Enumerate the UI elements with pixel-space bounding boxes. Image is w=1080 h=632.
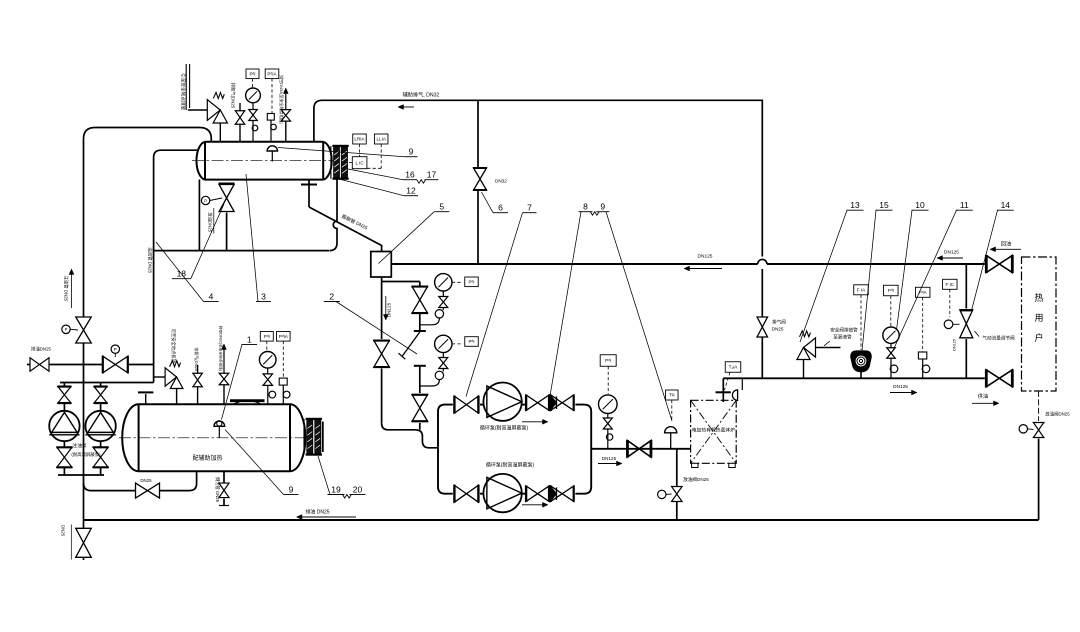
valve: bypass lower xyxy=(412,395,429,422)
label: 注油泵(耐高温屏蔽泵) xyxy=(71,442,101,458)
svg-text:20: 20 xyxy=(353,484,363,494)
svg-text:PᵈI: PᵈI xyxy=(264,334,270,339)
svg-text:排气阀: 排气阀 xyxy=(772,319,786,326)
wire: aux vent pipe (辅助排气) top run y=100.3 xyxy=(314,100,762,256)
svg-text:5: 5 xyxy=(439,202,444,212)
svg-text:放油阀DN25: 放油阀DN25 xyxy=(1045,411,1070,418)
flow meter (item 15) + box F IA xyxy=(851,285,871,379)
svg-text:PᵈI: PᵈI xyxy=(468,279,474,284)
label: DN125 + right arrow on supply manifold xyxy=(890,384,917,395)
callout 4 xyxy=(156,242,219,302)
instrument box PdIA (lower tank) + transmitter xyxy=(277,332,291,405)
svg-text:注油泵: 注油泵 xyxy=(72,442,87,449)
svg-text:用: 用 xyxy=(1034,313,1043,323)
svg-text:循环泵(耐高温屏蔽泵): 循环泵(耐高温屏蔽泵) xyxy=(486,462,535,469)
svg-text:LLIA: LLIA xyxy=(376,137,386,142)
wire: bypass branch x=419.8 (valve1/spool/valve2) xyxy=(382,282,420,430)
svg-text:8: 8 xyxy=(583,202,588,212)
svg-text:至漏液管: 至漏液管 xyxy=(833,334,852,341)
wire: vent branch with valve6 x=478 xyxy=(477,100,479,264)
svg-text:11: 11 xyxy=(960,200,969,210)
label: 溢流管 DN25 xyxy=(147,247,154,273)
svg-text:可至安全地点排放: 可至安全地点排放 xyxy=(170,329,177,364)
svg-text:PᵈIA: PᵈIA xyxy=(267,71,277,76)
centerline: expansion tank xyxy=(192,160,336,162)
svg-text:LRIA: LRIA xyxy=(354,137,365,142)
label: expansion pipe 膨胀管 DN25 xyxy=(341,213,370,232)
wire: horizontal drain collect line y=250.6 xyxy=(154,250,329,252)
wire: safety relief outlet (upper tank) to riser xyxy=(186,64,207,110)
instrument box PdI (lower tank) xyxy=(260,332,273,352)
svg-text:F IA: F IA xyxy=(857,287,866,292)
svg-text:循环泵(耐高温屏蔽泵): 循环泵(耐高温屏蔽泵) xyxy=(480,425,529,432)
svg-text:9: 9 xyxy=(409,147,414,157)
valve: nitrogen vent 排氮气 DN25 (lower) xyxy=(193,365,203,404)
wire: tank bottom nozzle drop x=199.4 xyxy=(198,180,200,251)
wire: control valve bypass vertical x=966.3 xyxy=(965,264,967,378)
svg-text:4: 4 xyxy=(209,291,214,301)
valve: pump2 bottom xyxy=(93,447,109,467)
svg-text:PᵈIA: PᵈIA xyxy=(279,334,289,339)
pressure gauge assembly on storage tank xyxy=(259,352,276,405)
wire: lower safety relief outlet to overflow pipe xyxy=(154,376,166,378)
svg-text:16: 16 xyxy=(405,170,415,180)
svg-text:排空DN32(至安全地点相连): 排空DN32(至安全地点相连) xyxy=(219,326,224,371)
callout 1 xyxy=(222,334,258,419)
label+arrow: 循环泵(耐高温屏蔽泵) top xyxy=(480,419,548,431)
valve: pump2 top xyxy=(94,387,108,404)
instrument box T1IA at heater outlet xyxy=(725,362,741,390)
filter pot (item 5) xyxy=(371,252,392,278)
wire: lower tank bottom outlet to DN25 valve line y=490.6 xyxy=(84,471,197,490)
svg-text:DN25: DN25 xyxy=(61,525,66,537)
valve: injection riser w/ P tap x=83.5 xyxy=(62,317,91,343)
callout 9 (level gauge top) xyxy=(278,147,418,157)
control valve 气动流量调节阀 (item 14) + box F IC xyxy=(943,279,1015,351)
valve: pump1 top xyxy=(57,387,71,404)
svg-text:PᵈI: PᵈI xyxy=(605,358,611,363)
wire: level-gauge drain drop x=337 with jump over expansion line xyxy=(329,178,337,251)
valve: tank drain w/ P tap (item 18) xyxy=(201,184,234,212)
vessel: oil storage tank 配辅助加热 (shell) xyxy=(122,404,305,471)
svg-text:DN125: DN125 xyxy=(698,254,713,260)
svg-text:辅助排气, DN32: 辅助排气, DN32 xyxy=(403,91,440,99)
label: 回油 + left arrow xyxy=(990,239,1021,251)
wire: bottom drain header y=520 xyxy=(84,519,1039,521)
pump: injection pump 1 (注油泵) xyxy=(49,411,79,441)
svg-text:PᵈI: PᵈI xyxy=(468,339,474,344)
svg-text:L IC: L IC xyxy=(355,160,364,165)
instrument box LRIA xyxy=(353,134,367,156)
instrument box PdI (upper tank) xyxy=(246,69,259,88)
svg-text:DN125: DN125 xyxy=(602,456,617,461)
safety valve on supply manifold (item 13) xyxy=(797,331,841,379)
wire: overflow pipe (溢流管) from tank head down x=153.5 xyxy=(154,150,198,382)
pressure gauge PdI on discharge xyxy=(599,355,618,449)
svg-text:1: 1 xyxy=(247,334,252,344)
callout 11 xyxy=(894,200,973,350)
temperature dome at heater outlet xyxy=(732,378,742,400)
callout 5 xyxy=(379,202,450,264)
svg-text:13: 13 xyxy=(850,200,860,210)
label: DN125 + left arrow on return near user xyxy=(937,250,963,261)
callout 8 + 9 xyxy=(550,202,672,422)
svg-text:DN125: DN125 xyxy=(952,339,956,351)
pressure gauge (item 10) + box PdI on manifold xyxy=(883,285,899,378)
label: 注油管 DN25 + up arrow xyxy=(63,269,74,308)
valve: blowdown 倒污管 DN25 xyxy=(219,483,229,498)
svg-text:P: P xyxy=(204,198,207,203)
centerline: storage tank xyxy=(119,437,308,439)
temperature sensor TgI at heater inlet xyxy=(665,390,678,449)
pump: circulation pump top (循环泵) xyxy=(483,383,521,421)
vessel: expansion tank (shell) xyxy=(196,142,331,180)
valve: bottom header drain x=83.5 xyxy=(61,525,92,560)
svg-text:户: 户 xyxy=(1034,332,1043,343)
valve: return isolation at heat user xyxy=(986,255,1012,273)
pressure gauge PdI #1 (bypass) xyxy=(420,274,452,325)
wire: supply manifold y=378.3 xyxy=(723,377,985,379)
callout 12 xyxy=(341,180,418,196)
svg-text:排氮气(DN25: 排氮气(DN25 xyxy=(194,347,200,371)
valve: pump1 bottom xyxy=(56,447,72,467)
svg-text:放油阀DN25: 放油阀DN25 xyxy=(683,476,709,483)
transmitter (item 11?) + box PdA on manifold xyxy=(915,287,930,378)
nozzle dome on expansion tank (item 9 ref) xyxy=(267,146,277,162)
nozzle dome on storage tank (item 1) xyxy=(214,421,225,438)
callout 3 xyxy=(246,174,271,302)
wire: expansion pipe diagonal to filter (膨胀管) xyxy=(309,185,382,252)
svg-text:注油管 DN25: 注油管 DN25 xyxy=(63,275,70,301)
svg-text:9: 9 xyxy=(289,484,294,494)
flange tick: heater top nozzle xyxy=(716,391,731,393)
svg-text:6: 6 xyxy=(498,203,503,213)
svg-text:排油DN25: 排油DN25 xyxy=(31,346,52,353)
pressure gauge assembly on expansion tank xyxy=(246,88,261,142)
electric heater 电加热有机热载体炉 xyxy=(691,400,737,467)
valve: filter line gate x=381.6 xyxy=(373,341,390,368)
callout 7 xyxy=(466,203,537,397)
callout 10 xyxy=(897,200,929,330)
valve: pump2 suction gate xyxy=(454,485,478,503)
svg-text:DN32: DN32 xyxy=(495,178,507,183)
svg-text:DN125: DN125 xyxy=(893,384,908,390)
flange tick: capped nozzle on tank top-left xyxy=(138,392,153,404)
svg-text:TᵍI: TᵍI xyxy=(669,393,675,398)
valve: nitrogen vent 排氮气 DN25 (upper) xyxy=(235,103,245,142)
svg-text:供油: 供油 xyxy=(978,392,988,400)
svg-text:排空DN32(至安全地点相连): 排空DN32(至安全地点相连) xyxy=(279,75,285,125)
callout 18 xyxy=(172,204,224,279)
wire: injection pipe top run to expansion tank xyxy=(84,128,212,143)
svg-text:热: 热 xyxy=(1034,292,1043,303)
instrument box L IC xyxy=(348,157,367,169)
valve: pump2 discharge gate xyxy=(526,485,549,502)
label: 辅助排气 DN32 + flow arrow xyxy=(398,91,440,110)
label: DN125 + arrow on discharge xyxy=(598,456,622,466)
instrument box PdIA (upper tank) + transmitter xyxy=(265,69,279,142)
callout 19 + 20 xyxy=(318,456,366,498)
wire: injection-pump suction/discharge headers xyxy=(58,383,154,476)
label+arrow: 循环泵(耐高温屏蔽泵) bottom xyxy=(486,462,548,508)
valve: deaeration 排气阀 DN25 x=762.3 xyxy=(757,317,786,337)
svg-text:F IC: F IC xyxy=(945,282,954,287)
svg-text:回油: 回油 xyxy=(1001,239,1011,247)
svg-text:15: 15 xyxy=(879,200,889,210)
svg-text:12: 12 xyxy=(406,186,416,196)
valve: tank outlet DN25 to pumps xyxy=(136,478,160,498)
wire: supply-line drain drop x=676.8 xyxy=(676,449,678,520)
wire: supply pipe pump discharge y=448.8 xyxy=(591,448,690,450)
svg-text:引至安全地点排放: 引至安全地点排放 xyxy=(180,73,187,110)
callout 15 xyxy=(862,200,893,351)
svg-text:DN25: DN25 xyxy=(140,478,152,483)
wire: injection pipe riser (注油管) left vertical x=83 xyxy=(83,139,85,475)
spool blind between flanges (item 2) xyxy=(399,331,426,366)
svg-text:配辅助加热: 配辅助加热 xyxy=(192,454,222,462)
wire: tank drain valve stem x=226.6 xyxy=(226,213,228,251)
wire: return main DN125 y=264 xyxy=(391,259,985,264)
valve: transfer w/ P tap (115,364.5) xyxy=(103,345,128,373)
valve: discharge main gate DN125 xyxy=(627,440,651,458)
heat user box 热用户 xyxy=(1022,257,1057,391)
valve: bypass upper (on branch x=419.8) xyxy=(412,287,429,314)
wire: pump loop rounded rectangle xyxy=(438,405,591,494)
svg-text:P: P xyxy=(114,347,117,352)
wire: lower tank blowdown 倒污管 x=224 xyxy=(219,471,229,505)
label: DN125 vertical + down arrow (filter drop) xyxy=(383,296,391,320)
svg-text:溢流管 DN25: 溢流管 DN25 xyxy=(147,247,154,273)
callout 6 xyxy=(482,192,509,213)
wire: filter down DN125 x=381.6 + S-bend to pump loop suction xyxy=(382,277,438,448)
svg-text:T₁IA: T₁IA xyxy=(729,365,739,370)
wire: heater outlet run to manifold xyxy=(722,378,724,402)
label: 安全阀排放管 至漏液管 xyxy=(824,327,858,346)
svg-text:17: 17 xyxy=(427,170,437,180)
svg-text:10: 10 xyxy=(915,200,925,210)
svg-text:安全阀排放管: 安全阀排放管 xyxy=(830,327,858,334)
instrument box LLIA xyxy=(367,134,388,168)
callout 9 (lower tank dome) xyxy=(225,430,299,495)
svg-text:电加热有机热载体炉: 电加热有机热载体炉 xyxy=(692,427,735,434)
check valve pump2 xyxy=(551,485,574,502)
svg-text:DN125: DN125 xyxy=(944,250,959,256)
callout 2 xyxy=(324,291,417,354)
svg-text:7: 7 xyxy=(527,203,532,213)
wire: left column x=83.5 lower segment + drain xyxy=(83,475,85,560)
valve: pump1 discharge gate xyxy=(526,394,549,411)
svg-text:14: 14 xyxy=(1001,200,1011,210)
svg-text:P: P xyxy=(65,327,68,332)
pump: circulation pump bottom xyxy=(483,474,521,512)
svg-text:DN25: DN25 xyxy=(772,327,784,332)
svg-text:PᵈI: PᵈI xyxy=(249,71,255,76)
flange tick: tank bottom-right nozzle xyxy=(301,180,317,185)
pressure gauge PdI #2 (bypass) xyxy=(420,335,452,386)
valve+tap: supply line drain 放油阀DN25 x=676.8 xyxy=(658,476,710,502)
svg-text:PᵈI: PᵈI xyxy=(888,288,894,293)
valve: heat user drain 放油阀DN25 xyxy=(1019,411,1070,438)
callout 16 + 17 xyxy=(348,169,439,183)
valve: vent 排空DN32 (lower) xyxy=(219,344,229,404)
level gauge bundle on right head (items 12/16/17) xyxy=(331,145,349,180)
svg-text:气动流量调节阀: 气动流量调节阀 xyxy=(982,335,1015,342)
svg-text:排油 DN25: 排油 DN25 xyxy=(305,509,329,516)
callout 13 xyxy=(800,200,864,342)
heater bundle on right head (items 19/20) xyxy=(304,418,323,456)
label: DN125 + left arrow mid return xyxy=(684,254,722,271)
wire: vent/deaer drop x=762.3 below return main xyxy=(761,269,763,378)
valve: oil-out 排油DN25 xyxy=(30,346,52,372)
svg-text:3: 3 xyxy=(261,291,266,301)
manhole on storage tank xyxy=(230,401,265,405)
label: 引至安全地点排放 (upper) xyxy=(180,73,187,110)
check valve pump1 xyxy=(551,394,574,411)
wire: heat-user drain drop x=1038.6 xyxy=(1038,391,1040,520)
safety valve on expansion tank (引至安全地点排放) xyxy=(207,92,227,141)
safety valve on storage tank xyxy=(165,361,183,404)
svg-text:排氮气(DN25: 排氮气(DN25 xyxy=(230,83,237,109)
pump: injection pump 2 xyxy=(85,411,115,441)
svg-text:9: 9 xyxy=(600,202,605,212)
label: 配辅助加热 xyxy=(192,454,222,462)
svg-text:倒污管 DN25: 倒污管 DN25 xyxy=(214,477,221,503)
valve: vent 排空DN32 (upper, to safe place) xyxy=(281,88,291,142)
valve: vent DN32 (item 6) xyxy=(473,168,507,190)
valve: supply isolation at heat user xyxy=(986,369,1012,387)
svg-text:19: 19 xyxy=(331,484,341,494)
label: 排油 DN25 + long left arrow on bottom header xyxy=(297,509,357,520)
valve: pump1 suction gate xyxy=(454,396,478,414)
label: 供油 + right arrow xyxy=(972,392,999,406)
svg-text:2: 2 xyxy=(329,291,334,301)
callout 14 xyxy=(972,200,1014,311)
wire: oil-out stub y=364.5 (排油) xyxy=(27,364,154,366)
label: 可至安全地点排放 (lower) xyxy=(170,329,177,364)
